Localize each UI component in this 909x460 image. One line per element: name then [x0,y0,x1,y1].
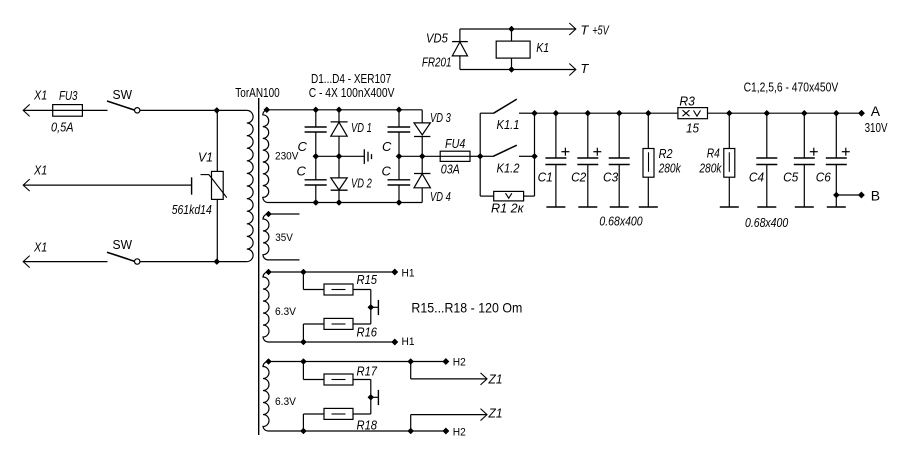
relay coil K1 [496,29,530,70]
capacitor C2 [571,113,601,207]
svg-text:Z1: Z1 [488,372,503,387]
label V1 [198,150,213,165]
label R17 [357,364,378,379]
node mid VD1-VD2 [336,153,342,159]
wire bridge top rail [267,109,422,111]
terminal H1 bottom [392,336,415,348]
svg-text:C: C [297,164,307,179]
svg-text:K1.2: K1.2 [497,160,521,175]
diode VD4 [414,156,430,202]
caption R15...R18 - 120 Om [411,300,522,316]
node mid C right [396,153,402,159]
switch SW top [107,87,140,113]
diode VD1 [331,110,348,157]
node rail R4 [726,110,732,116]
svg-text:R1 2к: R1 2к [491,201,524,216]
label K1.1 [497,117,520,132]
svg-text:6.3V: 6.3V [275,396,297,408]
terminal A [858,103,881,119]
node rail C4 [764,110,770,116]
resistor R16 [303,318,370,342]
wire 35V top stub [269,213,300,215]
caption C - 4X 100nX400V [309,86,395,100]
svg-text:FU4: FU4 [445,136,465,151]
terminal H1 top [392,268,415,280]
wire bridge mid-right [399,155,440,157]
diode VD5 [452,29,468,70]
svg-text:0.68x400: 0.68x400 [745,215,789,230]
label X1 middle [33,163,47,178]
svg-text:VD5: VD5 [426,30,448,45]
node Z1 bottom junction [408,428,414,434]
node C6 B junction [833,192,839,198]
svg-text:H1: H1 [402,268,415,280]
node primary bottom junction [214,259,220,265]
svg-text:H1: H1 [402,336,415,348]
transformer core [258,98,260,435]
diode VD2 [331,156,348,202]
label K1 [536,40,549,55]
label VD 2 [351,175,372,190]
label 6.3V lower [275,396,297,408]
svg-text:VD 4: VD 4 [430,189,451,204]
node bottom rail VD2 [336,200,342,206]
svg-text:561kd14: 561kd14 [172,202,212,217]
label C upper-right [382,139,392,154]
svg-text:R18: R18 [357,418,378,433]
svg-text:C1: C1 [538,170,553,185]
wire 6.3V lower bottom [268,430,446,432]
label VD5 [426,30,448,45]
label T bottom [580,61,589,76]
node relay bottom [509,67,515,73]
terminal Z1 top arrow [481,372,503,387]
node R17 junction top [300,359,306,365]
svg-text:R17: R17 [357,364,378,379]
terminal Z1 bottom arrow [481,406,503,421]
label R1 2к [491,201,524,216]
svg-text:280k: 280k [658,161,682,176]
resistor R17 [303,362,370,386]
svg-text:FU3: FU3 [59,88,78,103]
svg-text:SW: SW [113,87,133,102]
resistor R1 [480,156,534,201]
svg-text:TorAN100: TorAN100 [235,86,279,100]
wire relay top rail [460,28,576,30]
terminal B [858,188,880,204]
label C lower-right [382,164,392,179]
label 0,5A [51,120,74,135]
svg-text:R16: R16 [357,325,378,340]
contact K1.2 [480,145,534,156]
svg-text:R4: R4 [707,146,720,161]
svg-text:15: 15 [686,121,700,136]
terminal bar R17-R18 [371,390,379,405]
svg-text:R15...R18 - 120 Om: R15...R18 - 120 Om [411,300,522,316]
wire switch to transformer top [140,109,247,111]
node top rail C left [313,107,319,113]
label 230V [275,151,299,163]
capacitor C1 [538,113,570,207]
svg-text:R3: R3 [679,94,695,109]
svg-text:R15: R15 [357,272,378,287]
fuse FU4 [440,136,470,162]
svg-text:C: C [298,139,308,154]
svg-text:SW: SW [113,237,133,252]
terminal T arrow [569,64,576,76]
capacitor C upper-left [305,110,327,157]
wire FU4 to contacts [470,155,480,157]
label 15 [686,121,700,136]
label 35V [275,232,293,244]
resistor R2 [639,113,658,207]
svg-text:C2: C2 [571,170,587,185]
svg-text:35V: 35V [275,232,293,244]
node top rail VD1 [336,107,342,113]
capacitor C4 [749,113,777,207]
node mid VD3-VD4 [419,153,425,159]
node rail R2 [645,110,651,116]
wire switch to transformer bottom [140,261,247,263]
svg-text:03A: 03A [441,162,460,177]
wire contacts right vertical [534,113,536,196]
svg-text:K1: K1 [536,40,549,55]
node contacts left junction [477,153,483,159]
svg-text:T: T [580,22,589,37]
label R3 [679,94,695,109]
node Z1 top junction [408,359,414,365]
label 0.68x400 left [599,214,643,229]
svg-text:FR201: FR201 [422,55,452,70]
svg-text:VD 2: VD 2 [351,175,372,190]
label R16 [357,325,378,340]
wire relay bottom rail [460,69,576,71]
svg-text:H2: H2 [453,427,466,439]
resistor R18 [303,408,370,431]
label T +5V [580,22,609,37]
node top rail C right [396,107,402,113]
svg-text:0,5A: 0,5A [51,120,74,135]
svg-text:C: C [382,139,392,154]
switch SW bottom [107,237,140,264]
svg-text:C3: C3 [603,170,619,185]
label X1 bottom [33,240,47,255]
terminal H2 bottom [443,427,466,439]
label VD 1 [351,120,372,135]
label R2 [659,146,674,161]
svg-text:X1: X1 [33,163,47,178]
svg-text:R2: R2 [659,146,674,161]
capacitor C6 [816,113,850,207]
wire bridge bottom rail [268,202,423,204]
node rail C5 [801,110,807,116]
node primary top junction [214,107,220,113]
wire 6.3V upper top [269,271,395,273]
svg-text:C - 4X 100nX400V: C - 4X 100nX400V [309,86,395,100]
terminal X1 middle arrow [23,179,191,191]
node bottom rail C right [396,200,402,206]
contact K1.1 [480,99,534,156]
ground chassis symbol [364,149,371,164]
node R18 junction bottom [300,428,306,434]
label C lower-left [297,164,307,179]
svg-text:230V: 230V [275,151,299,163]
svg-text:T: T [580,61,589,76]
node bottom rail C left [313,200,319,206]
svg-text:C: C [382,164,392,179]
svg-text:+5V: +5V [592,22,610,37]
winding 230V secondary [263,107,270,203]
wire fuse to switch [82,109,107,111]
svg-text:X1: X1 [33,240,47,255]
svg-text:6.3V: 6.3V [275,306,297,318]
node rail C1 [553,110,559,116]
wire filter rail right [708,112,862,114]
label VD 3 [430,110,451,125]
wire to Z1 top [411,362,487,379]
terminal H2 top [443,357,466,369]
svg-text:C1,2,5,6 - 470x450V: C1,2,5,6 - 470x450V [744,80,839,94]
label 6.3V upper [275,306,297,318]
node R15 junction top [300,269,306,275]
winding 6.3V lower secondary [263,359,272,432]
svg-text:X1: X1 [33,88,47,103]
winding 6.3V upper secondary [263,269,272,342]
wire filter rail left [535,112,678,114]
capacitor C5 [783,113,818,207]
label FR201 [422,55,452,70]
label R4 [707,146,720,161]
svg-text:K1.1: K1.1 [497,117,520,132]
varistor V1 [201,110,227,261]
label C upper-left [298,139,308,154]
svg-text:A: A [871,103,881,119]
terminal bar middle [191,177,193,194]
label 0.68x400 right [745,215,789,230]
capacitor C upper-right [388,110,411,157]
capacitor C3 [603,113,630,207]
capacitor C lower-left [305,156,327,202]
label 561kd14 [172,202,212,217]
label R15 [357,272,378,287]
node relay top [509,26,515,32]
node K1.2 right [532,153,538,159]
svg-text:VD 1: VD 1 [351,120,372,135]
label R18 [357,418,378,433]
label TorAN100 [235,86,279,100]
capacitor C lower-right [388,156,411,202]
terminal bar R15-R16 [371,300,379,315]
caption C1,2,5,6 - 470x450V [744,80,839,94]
svg-text:VD 3: VD 3 [430,110,451,125]
wire 6.3V lower top [269,361,446,363]
svg-text:0.68x400: 0.68x400 [599,214,643,229]
fuse FU3 [53,88,83,116]
diode VD3 [414,110,430,157]
svg-text:H2: H2 [453,357,466,369]
label 03A [441,162,460,177]
label 310V [865,121,888,135]
terminal X1 bottom arrow [23,256,107,268]
svg-text:C5: C5 [783,170,799,185]
node rail C2 [585,110,591,116]
winding 35V secondary [263,211,272,260]
wire R15-R16 node [368,290,374,325]
resistor R15 [303,272,370,295]
transformer primary winding [247,110,253,261]
wire 35V bottom stub [268,259,300,261]
svg-text:D1...D4 - XER107: D1...D4 - XER107 [311,72,391,86]
wire to B [836,194,861,196]
label VD 4 [430,189,451,204]
label 280k right [699,161,723,176]
label 280k left [658,161,682,176]
wire to Z1 bottom [411,415,487,431]
terminal X1 top arrow [23,104,53,116]
node R16 junction bottom [300,339,306,345]
svg-text:B: B [871,188,880,204]
svg-text:C6: C6 [816,170,832,185]
svg-text:C4: C4 [749,170,764,185]
svg-text:310V: 310V [865,121,888,135]
wire R17-R18 node [368,380,374,415]
label K1.2 [497,160,521,175]
resistor R3 [678,108,708,119]
node rail C3 [616,110,622,116]
wire bridge mid-left [316,155,364,157]
label X1 top [33,88,47,103]
caption D1...D4 - XER107 [311,72,391,86]
node rail C6 [833,110,839,116]
resistor R4 [720,113,739,207]
wire 6.3V upper bottom [268,341,395,343]
svg-text:V1: V1 [198,150,213,165]
svg-text:Z1: Z1 [488,406,503,421]
svg-text:280k: 280k [699,161,723,176]
terminal T +5V arrow [569,23,576,35]
node rail K1.1 [532,110,538,116]
node mid C left [313,153,319,159]
